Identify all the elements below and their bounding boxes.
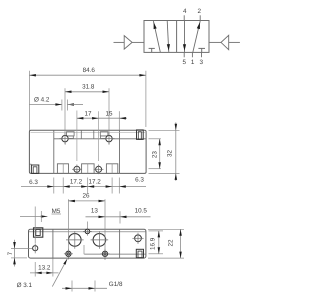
bottom view left division [52, 229, 54, 258]
left position: port 5 blocked (T) [149, 47, 155, 49]
right pilot stub [229, 41, 240, 43]
port 1 center mark [62, 164, 64, 174]
bottom view O3.1 hole A [66, 251, 71, 256]
right pilot line [209, 41, 221, 43]
bottom view G1/8 port circle B [93, 234, 106, 247]
valve symbol middle division [176, 21, 178, 53]
bottom view O3.1 hole B [102, 251, 107, 256]
left position: flow path 2-3 arrow down [167, 21, 169, 53]
svg-text:7: 7 [7, 251, 14, 255]
svg-text:17: 17 [84, 110, 92, 117]
left pilot to body [132, 41, 144, 43]
right position: flow path 4-5 arrow down [184, 21, 186, 53]
front view top band port verticals [80, 130, 82, 139]
front view bottom port block 3 [106, 164, 117, 174]
port 3 stub [201, 52, 203, 57]
ext port1 center [62, 178, 64, 194]
front view bottom screw 1 [74, 166, 80, 172]
svg-text:Ø 4.2: Ø 4.2 [34, 97, 50, 104]
svg-text:10.5: 10.5 [135, 207, 148, 214]
bottom view small top port circle [85, 229, 89, 233]
front view bottom port block 1 [57, 164, 68, 174]
ext port3 center [111, 178, 113, 194]
dimension 7 left side [11, 248, 32, 250]
front view top-right fitting box [137, 130, 144, 140]
ext division [53, 178, 55, 194]
bottom view M5 pilot hole [33, 246, 38, 251]
left pilot line [114, 41, 125, 43]
port 1 stub [191, 52, 193, 57]
dimension 32 right side [149, 129, 180, 131]
bottom view body outline [29, 229, 146, 258]
bottom view right port circle [135, 235, 142, 242]
bottom view G1/8 port circle A [69, 234, 82, 247]
front view screw boss left step [67, 132, 75, 136]
svg-text:6.3: 6.3 [135, 177, 144, 184]
ext hole A [67, 199, 69, 250]
svg-text:15: 15 [105, 110, 113, 117]
svg-text:23: 23 [151, 151, 158, 159]
front view bottom port block 2 [82, 164, 95, 174]
svg-text:17.2: 17.2 [88, 178, 101, 185]
dimension 84.6 overall width [28, 71, 30, 131]
svg-text:1: 1 [191, 59, 195, 66]
valve symbol 5/2 body [144, 21, 209, 53]
bottom view inner bottom line [84, 253, 146, 255]
label M5 with leader [20, 215, 47, 217]
right position: port 3 blocked (T) [198, 47, 205, 49]
right pilot triangle [221, 35, 229, 49]
front view bottom screw 2 [96, 166, 102, 172]
ext division for 13 [119, 211, 121, 223]
port centerline C1 [76, 111, 78, 162]
dimension 22 right [148, 228, 184, 230]
front view left end-cap division [53, 130, 55, 173]
ext hole B [104, 199, 106, 250]
svg-text:Ø 3.1: Ø 3.1 [17, 282, 33, 289]
bottom view right division [119, 229, 121, 258]
front view body outline [29, 130, 146, 173]
front view bottom-left port block [29, 163, 31, 165]
front view mounting screw hole 2 [106, 135, 112, 141]
13/10.5 dim line [86, 216, 151, 218]
dimension 23 right side [149, 138, 161, 140]
ext M5 below [34, 262, 36, 277]
port 4 stub [183, 15, 185, 20]
G1/8 leader inside body [83, 245, 85, 254]
left pilot triangle [124, 36, 132, 50]
svg-text:16.9: 16.9 [150, 237, 157, 250]
front view internal horizontal line [54, 138, 146, 140]
label O 3.1 with leader [52, 259, 67, 287]
svg-text:17.2: 17.2 [70, 178, 83, 185]
bottom view inner top line [29, 231, 146, 233]
dimension 15 [99, 117, 127, 119]
ext division right [118, 178, 120, 194]
svg-text:2: 2 [197, 8, 201, 15]
right position: flow path 1-2 diagonal arrow up [193, 21, 200, 52]
front view mounting screw hole 1 (O4.2) [62, 135, 68, 141]
bottom dim line [21, 186, 146, 188]
dimension 31.8 [64, 88, 66, 135]
svg-text:13: 13 [91, 207, 99, 214]
svg-text:G1/8: G1/8 [109, 281, 123, 288]
svg-text:6.3: 6.3 [29, 179, 38, 186]
front view screw boss right step [100, 132, 108, 136]
bottom view right port box [136, 249, 143, 257]
svg-text:5: 5 [183, 59, 187, 66]
ext division below [52, 259, 54, 277]
front view inner top parallel line [31, 131, 147, 133]
svg-text:13.2: 13.2 [38, 265, 51, 272]
svg-text:31.8: 31.8 [82, 84, 95, 91]
dimension 16.9 right [149, 230, 164, 232]
svg-text:32: 32 [167, 150, 174, 158]
screw1 stub [64, 142, 66, 145]
bottom view top-left port box [34, 228, 43, 237]
ext port2 center [87, 178, 89, 194]
port 2 stub [199, 15, 201, 20]
ext line small port [86, 222, 88, 228]
left position: flow path 1-4 diagonal arrow [153, 21, 160, 52]
front view right division [119, 130, 121, 173]
M5 underline [52, 213, 62, 215]
port centerline C2 [98, 111, 100, 161]
svg-text:26: 26 [82, 193, 90, 200]
svg-text:84.6: 84.6 [83, 67, 96, 74]
ext M5 centerline [34, 207, 36, 244]
port 5 stub [183, 52, 185, 57]
screw2 stub [108, 142, 110, 145]
svg-text:22: 22 [168, 239, 175, 247]
svg-text:4: 4 [183, 8, 187, 15]
svg-text:3: 3 [199, 59, 203, 66]
ext M5 edge [40, 211, 42, 222]
port 3 center mark [111, 164, 113, 174]
port 2 center mark [87, 164, 89, 174]
